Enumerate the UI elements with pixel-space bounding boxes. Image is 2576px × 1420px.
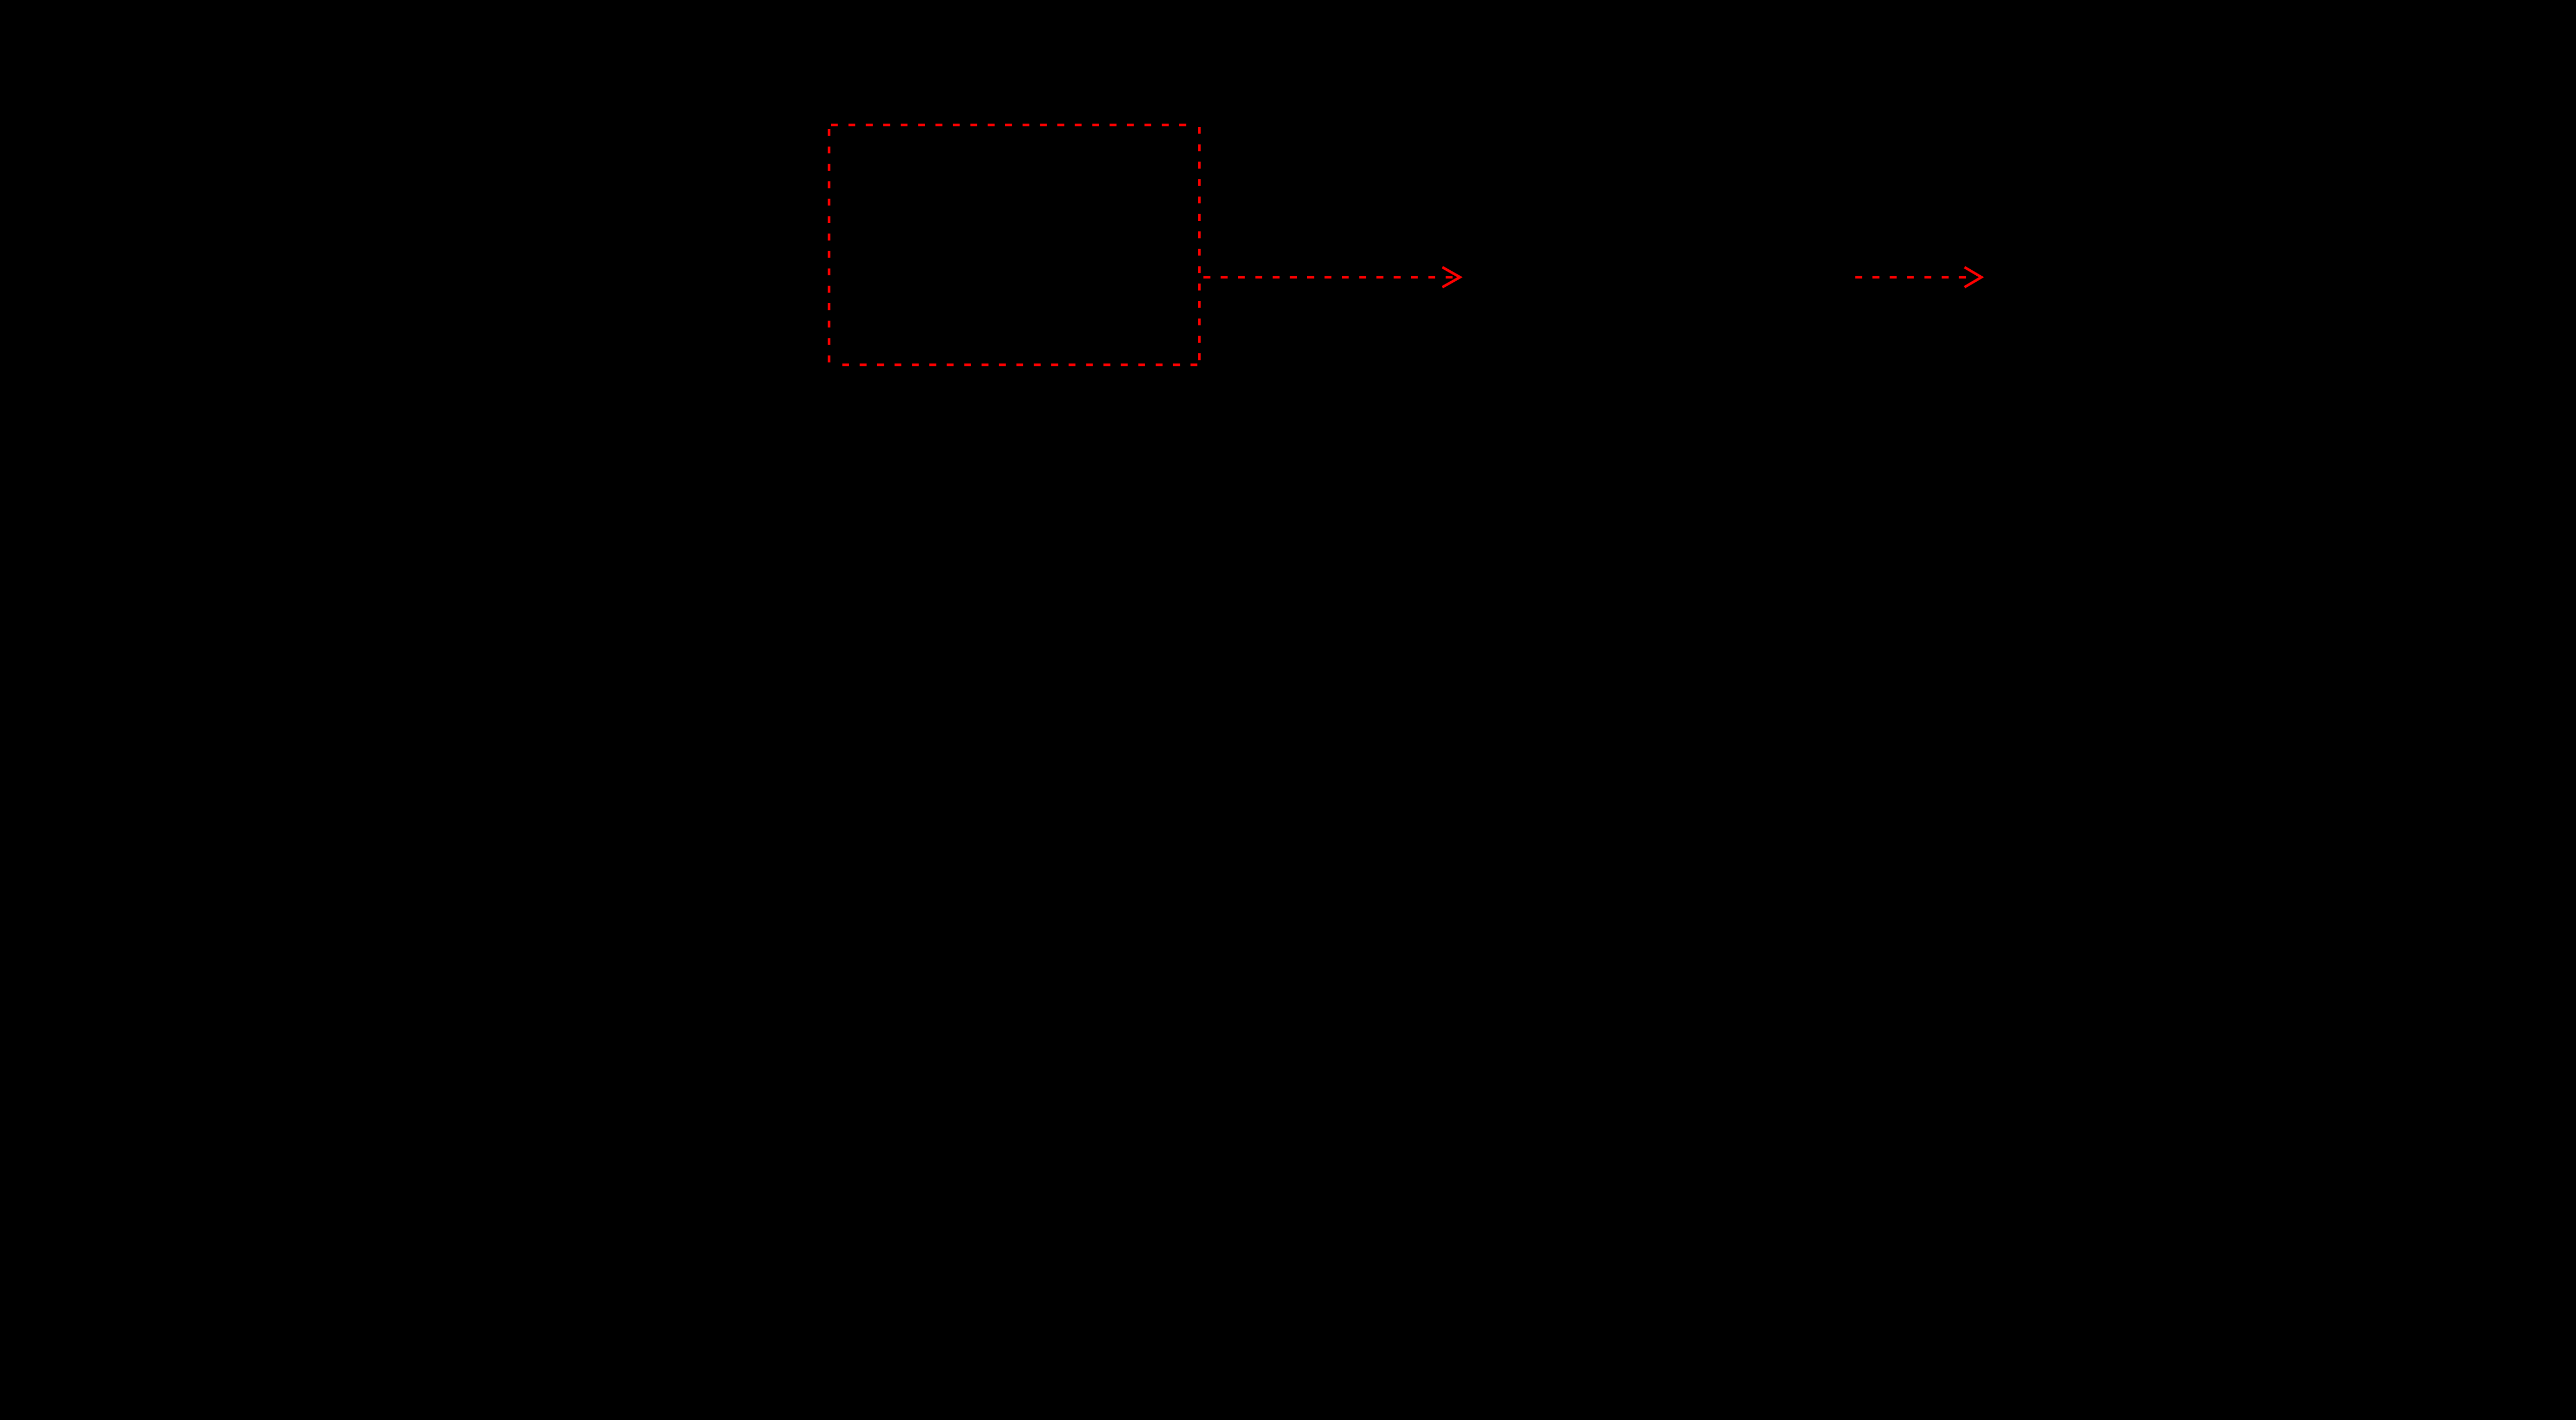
- wire bottom rail to V1: [383, 459, 386, 687]
- svg-text:R23: R23: [1829, 230, 1877, 259]
- resistor R23 (combined R2 parallel R3): [1786, 198, 1817, 289]
- wire bottom middle loop: [1565, 459, 1802, 687]
- wire R1b to R23: [1739, 165, 1802, 198]
- svg-text:Req: Req: [2307, 230, 2355, 259]
- wire from R1 to node A: [640, 164, 934, 166]
- voltage source V1b: [1532, 393, 1598, 459]
- wire R4 to bottom rail: [384, 586, 934, 687]
- resistor Req (equivalent resistance): [2264, 198, 2295, 289]
- resistor R1b: [1648, 149, 1739, 180]
- wire R2 bottom to node B: [933, 289, 935, 330]
- wire Req to bottom and back to V1c: [2087, 289, 2279, 687]
- highlight box : right edge: [1198, 127, 1201, 364]
- highlight box around R2 and R3 : top edge: [831, 124, 1189, 126]
- arrow 1 : chevron head: [1442, 267, 1460, 287]
- voltage source V1: [352, 393, 417, 459]
- wire V1c to Req: [2087, 165, 2279, 393]
- resistor R3: [1111, 198, 1141, 289]
- resistor R1: [549, 149, 640, 180]
- resistor R4b: [1786, 494, 1817, 586]
- wire V1b to top rail: [1565, 165, 1648, 393]
- wire from V1 top to top rail: [383, 165, 386, 393]
- arrow 1 : dashed shaft: [1203, 276, 1453, 279]
- highlight box : left edge: [828, 129, 830, 366]
- wire top rail left segment: [384, 164, 549, 166]
- svg-text:R1: R1: [577, 109, 610, 138]
- wire R3 bottom to node B: [934, 289, 1126, 330]
- svg-text:R2: R2: [873, 230, 907, 259]
- wire node A to R3 top: [934, 165, 1126, 198]
- svg-text:R3: R3: [1148, 230, 1181, 259]
- svg-text:V1: V1: [319, 411, 351, 440]
- svg-text:R4: R4: [961, 526, 995, 555]
- wire node A to R2 top: [933, 165, 935, 198]
- arrow 2 : chevron head: [1965, 267, 1982, 287]
- highlight box : bottom edge: [841, 364, 1197, 366]
- wire R23 to R4b: [1800, 289, 1803, 494]
- wire node B down to bottom rail: [933, 330, 935, 494]
- node B: [929, 325, 939, 335]
- resistor R2: [918, 198, 949, 289]
- arrow 2 : dashed shaft: [1855, 276, 1966, 279]
- ground: [637, 687, 681, 747]
- resistor R4: [918, 494, 949, 586]
- voltage source V1c: [2054, 393, 2120, 459]
- node A: [929, 160, 939, 170]
